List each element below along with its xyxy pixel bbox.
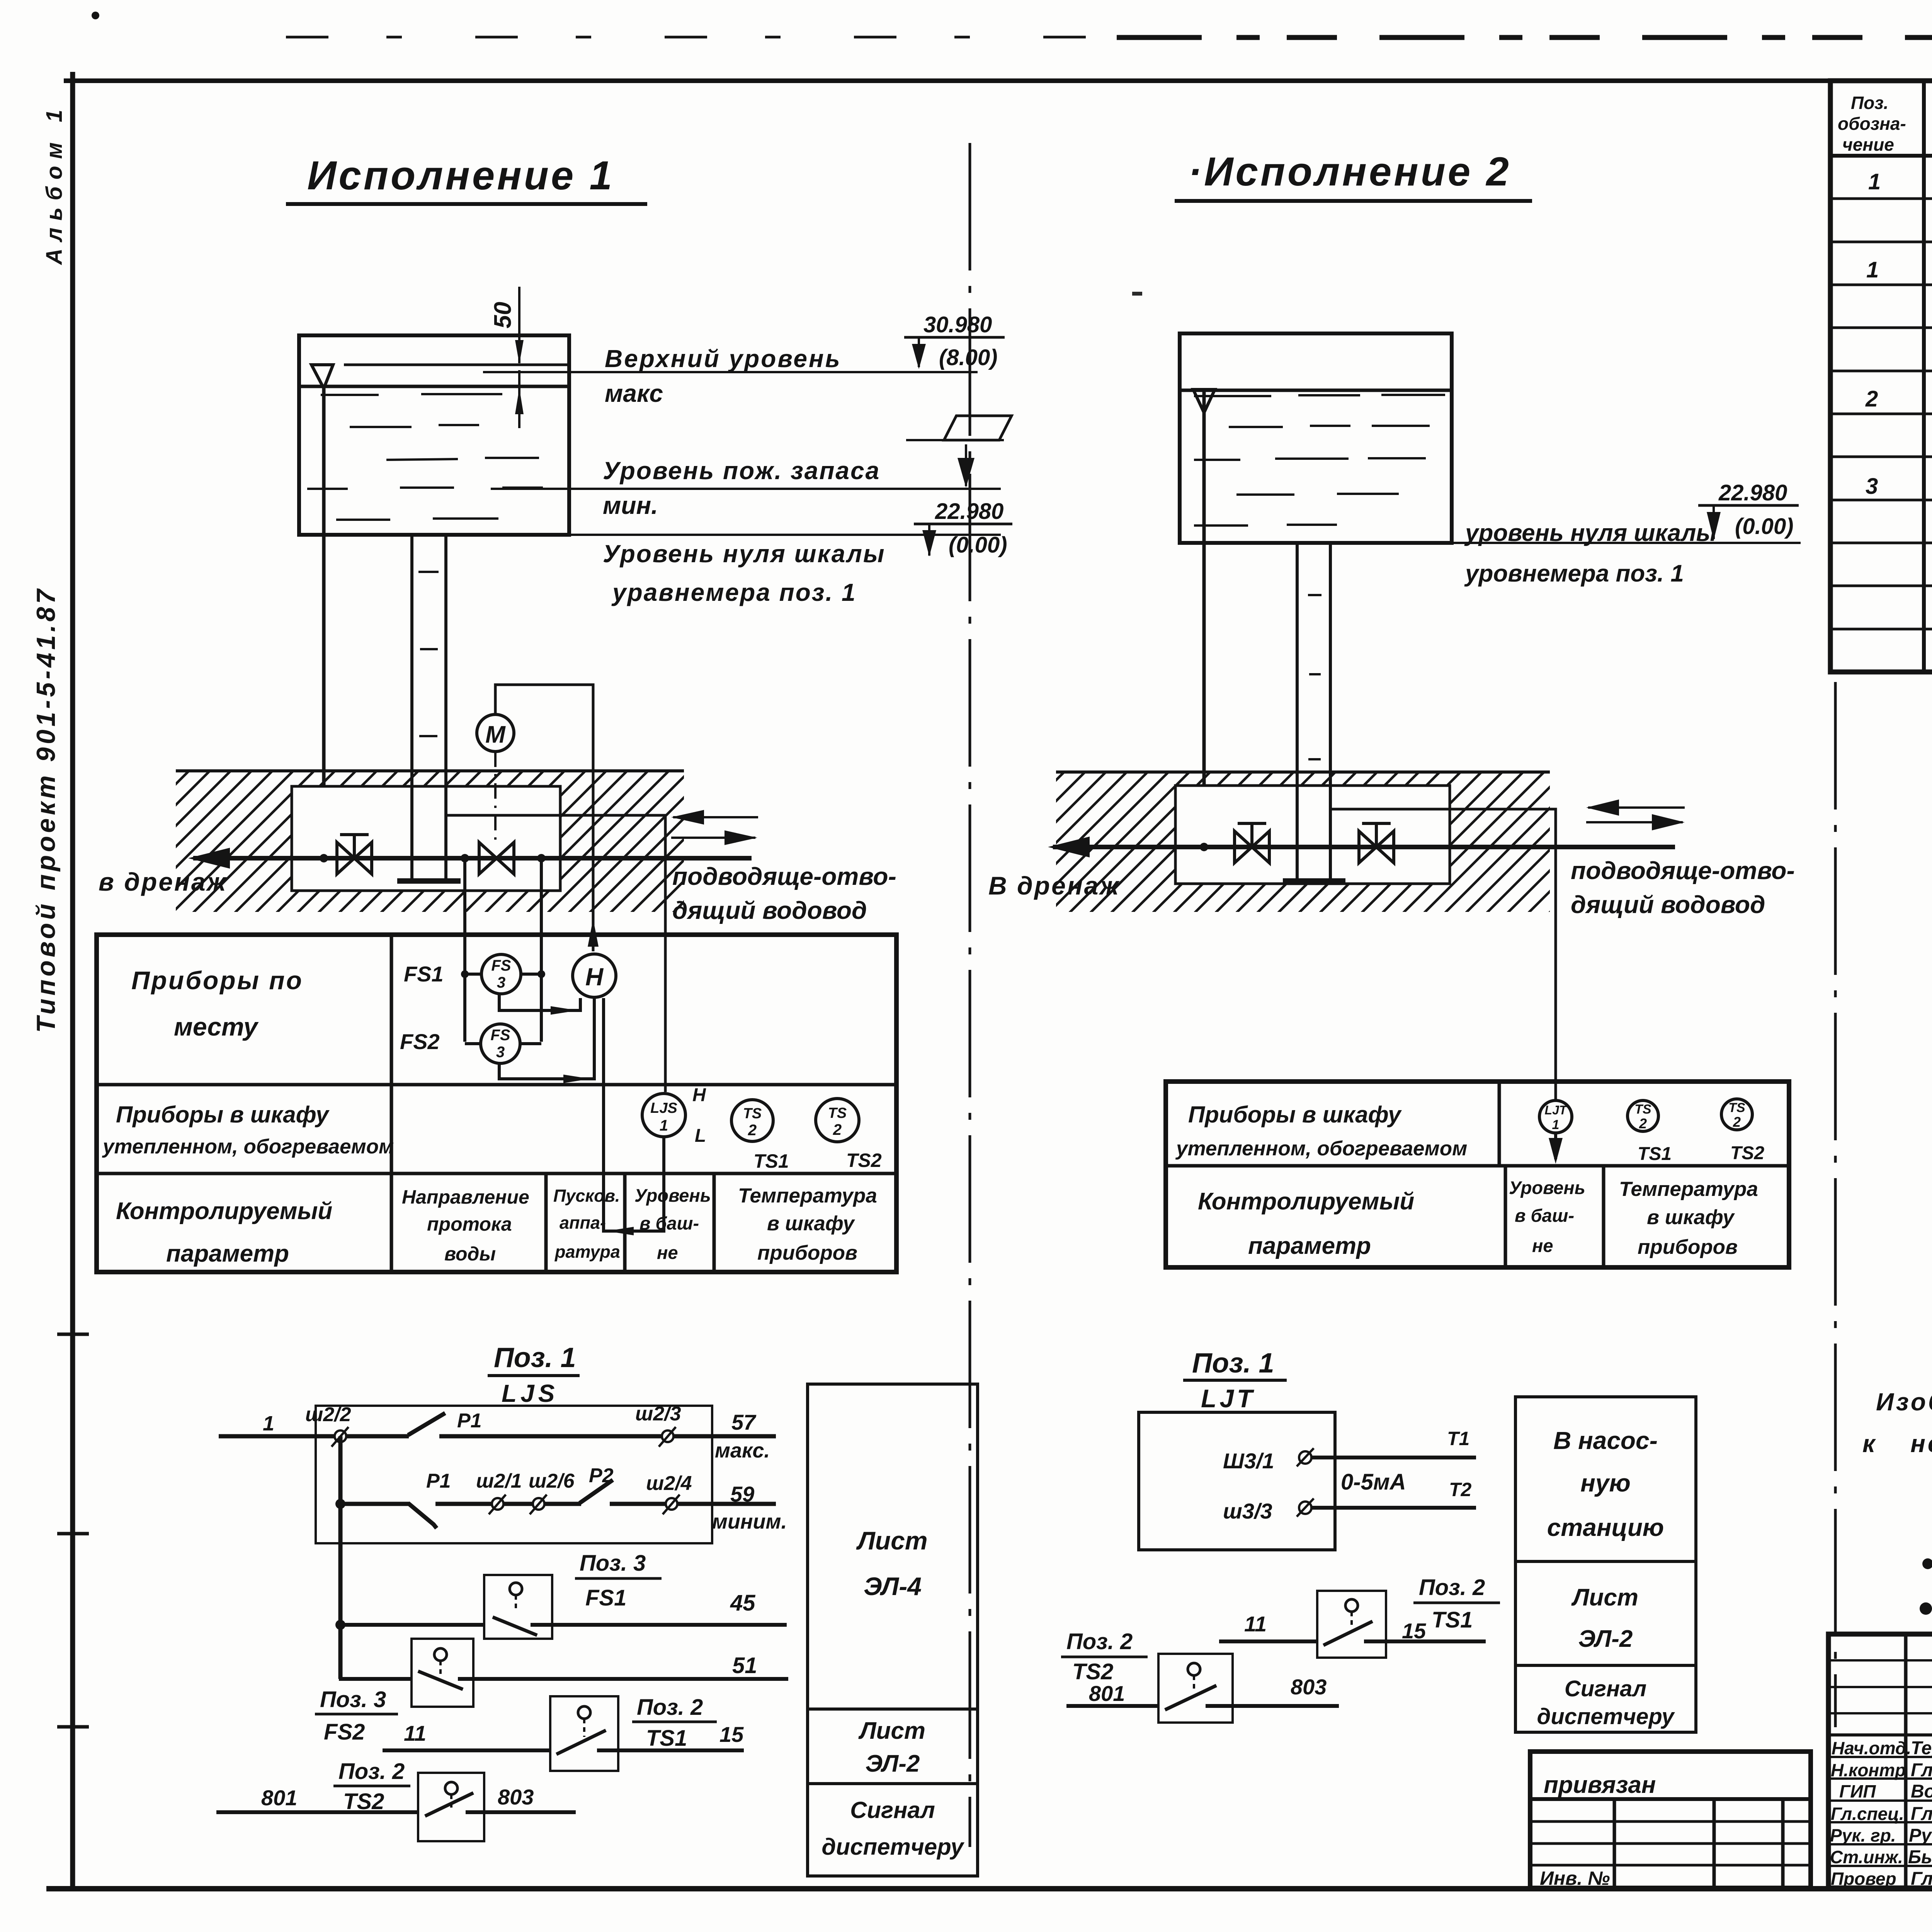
- main pipe impl2: [1053, 845, 1675, 849]
- G_UKAZANIE: [1862, 1332, 1932, 1615]
- svg-text:FS1: FS1: [585, 1585, 626, 1611]
- svg-text:2: 2: [748, 1122, 757, 1139]
- LJT impulse line: [1330, 809, 1556, 1100]
- svg-text:станцию: станцию: [1547, 1514, 1664, 1541]
- svg-text:TS1: TS1: [646, 1726, 687, 1751]
- svg-text:1: 1: [263, 1412, 274, 1435]
- float gauge wire: [322, 386, 326, 859]
- G_IMPL1_CIRCUIT: [216, 1342, 978, 1876]
- svg-text:утепленном, обогреваемом: утепленном, обогреваемом: [102, 1135, 394, 1158]
- G_IMPL1_TOP: [286, 153, 1012, 881]
- svg-text:ную: ную: [1580, 1469, 1631, 1497]
- names: [1908, 1738, 1932, 1889]
- G_IMPL1_MID: [99, 685, 896, 1092]
- svg-text:Рук. гр.: Рук. гр.: [1830, 1825, 1896, 1845]
- bus vertical: [338, 1436, 343, 1679]
- svg-text:801: 801: [261, 1786, 297, 1810]
- rung TS1 impl2: [1219, 1639, 1317, 1643]
- svg-text:TS1: TS1: [1638, 1144, 1672, 1164]
- svg-text:Поз. 3: Поз. 3: [320, 1687, 386, 1712]
- svg-text:Изображение и поз. спецификац: Изображение и поз. спецификации относящи…: [1876, 1388, 1932, 1416]
- tank 2 body: [1180, 333, 1452, 881]
- svg-text:15: 15: [1402, 1619, 1426, 1643]
- svg-text:Провер: Провер: [1831, 1869, 1896, 1889]
- stem base flange: [397, 878, 461, 884]
- svg-text:1: 1: [1552, 1117, 1560, 1132]
- svg-text:Т2: Т2: [1449, 1479, 1472, 1500]
- привязан block frame: [1530, 1752, 1811, 1888]
- svg-text:TS2: TS2: [1730, 1143, 1764, 1163]
- wire bus FS risers: [465, 858, 541, 1044]
- section divider dash-dot line 2: [1834, 682, 1837, 1727]
- svg-text:Пусков.: Пусков.: [553, 1186, 620, 1206]
- svg-text:Гл.спец.: Гл.спец.: [1831, 1804, 1904, 1824]
- svg-text:3: 3: [1866, 474, 1878, 499]
- svg-text:в шкафу: в шкафу: [767, 1212, 855, 1235]
- name rows: [1828, 1756, 1932, 1758]
- svg-text:параметр: параметр: [1248, 1233, 1371, 1259]
- svg-text:Поз. 1: Поз. 1: [1192, 1348, 1274, 1379]
- svg-text:ш2/1: ш2/1: [476, 1470, 522, 1492]
- svg-text:TS2: TS2: [343, 1789, 384, 1814]
- svg-text:Верхний уровень: Верхний уровень: [605, 345, 842, 372]
- svg-text:миним.: миним.: [712, 1510, 787, 1533]
- svg-text:TS1: TS1: [1432, 1607, 1473, 1633]
- svg-text:Поз. 1: Поз. 1: [494, 1342, 576, 1373]
- LJS impulse tube from stem: [446, 815, 665, 1092]
- svg-text:Лист: Лист: [1571, 1584, 1638, 1611]
- scanned paper top edge (dashed): [286, 36, 1117, 39]
- elevation mark 22.980 (0.00) impl2: [1698, 480, 1799, 540]
- G_IMPL2_MID: [988, 772, 1795, 1100]
- svg-text:ш2/2: ш2/2: [305, 1403, 351, 1426]
- ruler ticks on left border: [57, 1334, 89, 1727]
- svg-text:Н: Н: [585, 963, 604, 991]
- svg-text:макс.: макс.: [715, 1439, 770, 1462]
- wire H down to LJS row: [604, 998, 664, 1231]
- svg-text:Температура: Температура: [738, 1184, 877, 1207]
- svg-text:Инв. №: Инв. №: [1540, 1867, 1610, 1889]
- junction dots on pipe: [320, 854, 328, 862]
- svg-text:P2: P2: [589, 1464, 614, 1487]
- tank 1 body: [299, 335, 569, 881]
- svg-text:ратура: ратура: [554, 1242, 620, 1262]
- svg-text:Альбом 1: Альбом 1: [42, 103, 67, 265]
- svg-text:протока: протока: [427, 1213, 512, 1235]
- svg-text:Глузберг: Глузберг: [1911, 1760, 1932, 1781]
- water dashes tank2: [1194, 395, 1445, 823]
- svg-text:дящий водовод: дящий водовод: [1571, 891, 1765, 918]
- rung 5: TS1 11-15: [383, 1748, 550, 1752]
- water surface dashes tank1: [307, 394, 543, 819]
- svg-text:Приборы по: Приборы по: [131, 966, 303, 995]
- destination box impl1: [808, 1384, 978, 1876]
- svg-text:0-5мА: 0-5мА: [1341, 1469, 1406, 1495]
- float gauge 2: [1193, 389, 1215, 413]
- svg-text:Н.контр: Н.контр: [1831, 1760, 1906, 1780]
- svg-text:1: 1: [660, 1117, 668, 1134]
- svg-text:Уровень: Уровень: [634, 1185, 711, 1206]
- float gauge triangle: [311, 365, 333, 388]
- svg-text:ш2/6: ш2/6: [529, 1470, 575, 1492]
- flow arrows impl2: [1588, 806, 1685, 809]
- motor M circle: [477, 714, 514, 752]
- flow direction arrows right: [673, 816, 758, 818]
- svg-text:В дренаж: В дренаж: [988, 871, 1120, 900]
- G_STAMP: [1530, 1634, 1932, 1921]
- svg-text:ГИП: ГИП: [1839, 1781, 1876, 1801]
- svg-text:803: 803: [498, 1785, 534, 1809]
- svg-text:LJS: LJS: [650, 1100, 677, 1116]
- svg-text:FS: FS: [490, 1027, 510, 1044]
- svg-text:45: 45: [730, 1590, 755, 1616]
- scan speck mid: [1132, 292, 1142, 296]
- svg-text:Быльченко: Быльченко: [1908, 1847, 1932, 1867]
- valve 3: [1235, 823, 1269, 863]
- tank 1 stem walls: [410, 535, 413, 881]
- svg-text:Сигнал: Сигнал: [850, 1797, 935, 1823]
- svg-text:Типовой проект 901-5-41.87: Типовой проект 901-5-41.87: [31, 586, 61, 1033]
- valve 2 (motor valve): [479, 842, 514, 874]
- svg-text:1: 1: [1868, 169, 1881, 194]
- svg-text:TS: TS: [1634, 1102, 1651, 1117]
- svg-text:Поз. 2: Поз. 2: [1419, 1575, 1485, 1600]
- svg-text:Температура: Температура: [1619, 1178, 1758, 1201]
- svg-text:Поз.: Поз.: [1851, 93, 1888, 113]
- job titles: [1830, 1738, 1911, 1889]
- svg-text:к не нужному исполнению башн: к не нужному исполнению башни вычеркнуть…: [1862, 1430, 1932, 1458]
- svg-text:P1: P1: [457, 1410, 482, 1432]
- svg-text:15: 15: [719, 1722, 744, 1747]
- svg-text:Глузберг: Глузберг: [1911, 1869, 1932, 1889]
- svg-text:FS2: FS2: [324, 1719, 365, 1745]
- svg-text:TS: TS: [743, 1105, 762, 1122]
- svg-text:(8.00): (8.00): [939, 345, 998, 370]
- svg-text:TS2: TS2: [846, 1150, 882, 1171]
- svg-text:Лист: Лист: [856, 1526, 927, 1555]
- svg-text:М: М: [485, 721, 506, 748]
- TS1 circle impl2: [1628, 1100, 1658, 1131]
- svg-text:59: 59: [730, 1482, 754, 1506]
- svg-text:11: 11: [1244, 1612, 1267, 1636]
- stamp main frame: [1828, 1634, 1932, 1888]
- relay FS1 circle: [481, 954, 521, 994]
- terminal ш2/2: [335, 1430, 346, 1442]
- LJT terminals box: [1139, 1412, 1335, 1550]
- svg-text:диспетчеру: диспетчеру: [821, 1834, 964, 1860]
- left part verticals: [1904, 1634, 1908, 1888]
- main pipe impl1: [193, 856, 752, 861]
- svg-text:22.980: 22.980: [1718, 480, 1787, 505]
- svg-text:TS1: TS1: [753, 1150, 789, 1172]
- svg-text:в шкафу: в шкафу: [1647, 1206, 1735, 1229]
- svg-text:уровнемера поз. 1: уровнемера поз. 1: [1464, 560, 1684, 587]
- svg-text:Контролируемый: Контролируемый: [116, 1198, 332, 1225]
- svg-text:Уровень нуля шкалы: Уровень нуля шкалы: [603, 540, 886, 568]
- ground hatching impl1: [176, 771, 684, 912]
- svg-text:30.980: 30.980: [923, 312, 992, 337]
- relay FS2 circle: [481, 1024, 520, 1063]
- chamber pit impl2: [1175, 786, 1450, 884]
- svg-text:не: не: [657, 1242, 678, 1263]
- svg-text:LJT: LJT: [1545, 1103, 1568, 1117]
- wire M to H riser: [495, 685, 593, 951]
- svg-text:TS2: TS2: [1072, 1659, 1113, 1684]
- terminal ш2/3: [662, 1430, 673, 1442]
- svg-text:2: 2: [1639, 1116, 1647, 1131]
- temp sensor TS2 circle: [816, 1099, 859, 1142]
- svg-text:Приборы в шкафу: Приборы в шкафу: [116, 1102, 330, 1128]
- G_IMPL1_TABLE: [97, 858, 896, 1272]
- section divider dash-dot line 1: [969, 143, 971, 1847]
- tank 1 water level line (макс): [344, 364, 569, 366]
- svg-text:FS: FS: [491, 957, 511, 974]
- svg-text:2: 2: [1865, 386, 1878, 412]
- rung 4: flow switch FS2 to 51: [339, 1677, 412, 1681]
- svg-text:51: 51: [732, 1653, 757, 1678]
- top small rows (left part): [1828, 1659, 1932, 1662]
- svg-text:ш2/3: ш2/3: [635, 1403, 681, 1425]
- rung 1: node 1 to 57 макс: [219, 1413, 776, 1436]
- svg-text:параметр: параметр: [166, 1240, 289, 1267]
- svg-text:Глузберг: Глузберг: [1911, 1804, 1932, 1824]
- G_IMPL2_TOP: [970, 143, 1835, 1847]
- ground surface line: [176, 769, 684, 772]
- svg-text:ЭЛ-2: ЭЛ-2: [866, 1750, 920, 1777]
- svg-text:57: 57: [731, 1410, 757, 1434]
- spec table frame: [1830, 81, 1932, 672]
- elevation mark 22.980 (0.00): [914, 499, 1012, 558]
- svg-text:TS: TS: [1728, 1100, 1745, 1115]
- svg-text:Нач.отд.: Нач.отд.: [1832, 1738, 1911, 1758]
- svg-text:LJT: LJT: [1201, 1384, 1255, 1413]
- table impl2 frame: [1166, 1082, 1789, 1267]
- svg-text:утепленном, обогреваемом: утепленном, обогреваемом: [1175, 1137, 1467, 1160]
- svg-text:уравнемера поз. 1: уравнемера поз. 1: [611, 578, 857, 606]
- wire FS2 to H: [499, 998, 594, 1079]
- svg-text:Поз. 2: Поз. 2: [637, 1695, 703, 1720]
- svg-text:FS1: FS1: [404, 962, 444, 986]
- re-draw stem over pit: [397, 786, 461, 881]
- svg-text:ш3/3: ш3/3: [1223, 1499, 1272, 1523]
- svg-text:(0.00): (0.00): [1735, 514, 1794, 539]
- svg-text:месту: месту: [174, 1012, 259, 1041]
- svg-text:Ш3/1: Ш3/1: [1223, 1449, 1274, 1473]
- svg-text:обозна-: обозна-: [1838, 114, 1906, 134]
- svg-text:FS2: FS2: [400, 1029, 440, 1054]
- svg-text:Т1: Т1: [1447, 1428, 1469, 1449]
- level switch LJS circle: [642, 1094, 685, 1137]
- tank 2 stem walls: [1296, 543, 1299, 881]
- ground hatching impl2: [1056, 772, 1550, 912]
- datum flag parallelogram: [944, 416, 1012, 440]
- wire FS1 to H: [499, 994, 580, 1010]
- svg-text:ш2/4: ш2/4: [646, 1472, 692, 1495]
- svg-text:ЭЛ-4: ЭЛ-4: [864, 1572, 922, 1600]
- svg-text:L: L: [695, 1126, 706, 1146]
- svg-text:P1: P1: [426, 1470, 451, 1492]
- svg-text:3: 3: [496, 1044, 505, 1061]
- svg-text:TS: TS: [828, 1105, 847, 1121]
- svg-text:2: 2: [833, 1121, 842, 1138]
- scan speck top-left: [92, 12, 99, 19]
- rung 6: TS2 801-803: [216, 1810, 418, 1814]
- svg-text:мин.: мин.: [603, 492, 658, 519]
- svg-text:Поз. 3: Поз. 3: [580, 1551, 646, 1576]
- svg-text:50: 50: [490, 302, 516, 328]
- destination box impl2: [1515, 1397, 1696, 1732]
- M to valve2 dash-dot link: [494, 752, 497, 842]
- svg-text:Рудницкий: Рудницкий: [1909, 1825, 1932, 1846]
- svg-text:Сигнал: Сигнал: [1565, 1676, 1646, 1701]
- svg-text:Контролируемый: Контролируемый: [1198, 1188, 1414, 1215]
- svg-text:не: не: [1532, 1235, 1553, 1256]
- svg-text:3: 3: [497, 974, 505, 991]
- svg-text:Волошин: Волошин: [1911, 1781, 1932, 1802]
- chamber pit: [292, 786, 560, 891]
- LJS contacts box: [316, 1406, 712, 1543]
- svg-text:Ст.инж.: Ст.инж.: [1830, 1847, 1903, 1867]
- svg-text:(0.00): (0.00): [949, 532, 1007, 558]
- TS2 circle impl2: [1721, 1099, 1752, 1130]
- svg-text:диспетчеру: диспетчеру: [1537, 1704, 1675, 1729]
- svg-text:Уровень пож. запаса: Уровень пож. запаса: [603, 457, 880, 485]
- svg-text:Приборы в шкафу: Приборы в шкафу: [1188, 1102, 1402, 1128]
- svg-text:Терехов: Терехов: [1911, 1738, 1932, 1759]
- svg-text:1: 1: [1866, 257, 1879, 282]
- rung 2: 59 миним: [340, 1480, 776, 1528]
- svg-text:В насос-: В насос-: [1553, 1427, 1658, 1454]
- svg-text:в дренаж: в дренаж: [99, 867, 227, 896]
- svg-text:Н: Н: [692, 1085, 706, 1105]
- G_IMPL2_TABLE: [1166, 1082, 1789, 1267]
- frame top border: [64, 78, 1932, 83]
- svg-text:·Исполнение 2: ·Исполнение 2: [1188, 149, 1511, 194]
- svg-text:Исполнение 1: Исполнение 1: [307, 153, 614, 198]
- svg-text:ЭЛ-2: ЭЛ-2: [1578, 1626, 1633, 1652]
- svg-text:в баш-: в баш-: [1515, 1205, 1574, 1226]
- svg-text:приборов: приборов: [1638, 1236, 1738, 1259]
- svg-text:макс: макс: [605, 379, 663, 407]
- svg-text:воды: воды: [444, 1243, 496, 1265]
- svg-text:дящий водовод: дящий водовод: [672, 896, 867, 924]
- svg-text:Поз. 2: Поз. 2: [338, 1759, 405, 1784]
- rung 3: flow switch FS1 to 45: [339, 1623, 484, 1627]
- frame bottom border: [46, 1886, 1932, 1891]
- svg-text:801: 801: [1089, 1681, 1125, 1706]
- svg-text:подводяще-отво-: подводяще-отво-: [672, 862, 896, 890]
- ink dots: [1922, 1558, 1932, 1569]
- junction dot impl2: [1200, 843, 1208, 851]
- frame left border: [70, 72, 75, 1889]
- dimension 50: [518, 287, 520, 428]
- svg-text:2: 2: [1733, 1114, 1741, 1130]
- svg-text:Поз. 2: Поз. 2: [1066, 1629, 1133, 1654]
- table impl1 frame: [97, 935, 896, 1272]
- svg-text:Направление: Направление: [402, 1186, 529, 1208]
- svg-text:привязан: привязан: [1544, 1772, 1656, 1798]
- svg-text:11: 11: [404, 1721, 426, 1745]
- svg-text:приборов: приборов: [757, 1242, 857, 1264]
- valve 1 (gate with T-handle): [337, 835, 372, 874]
- svg-text:Уровень: Уровень: [1509, 1177, 1585, 1198]
- valve 4: [1359, 823, 1394, 863]
- G_LEFTMARGIN: [31, 103, 89, 1727]
- G_SPEC_TABLE: [1830, 81, 1932, 672]
- rung TS2 impl2: [1066, 1704, 1158, 1708]
- elevation mark 30.980 (8.00): [904, 312, 1005, 370]
- svg-text:чение: чение: [1842, 134, 1894, 155]
- svg-text:Лист: Лист: [858, 1718, 925, 1744]
- svg-text:LJS: LJS: [502, 1379, 558, 1407]
- level transmitter LJT circle: [1539, 1100, 1572, 1133]
- svg-text:подводяще-отво-: подводяще-отво-: [1571, 857, 1795, 884]
- G_IMPL2_CIRCUIT: [1061, 1348, 1696, 1732]
- svg-text:803: 803: [1291, 1675, 1327, 1699]
- temp sensor TS1 circle: [731, 1100, 773, 1141]
- horn H circle: [573, 954, 616, 997]
- LJT output arrow down: [1554, 1133, 1557, 1159]
- svg-text:аппа-: аппа-: [560, 1213, 606, 1233]
